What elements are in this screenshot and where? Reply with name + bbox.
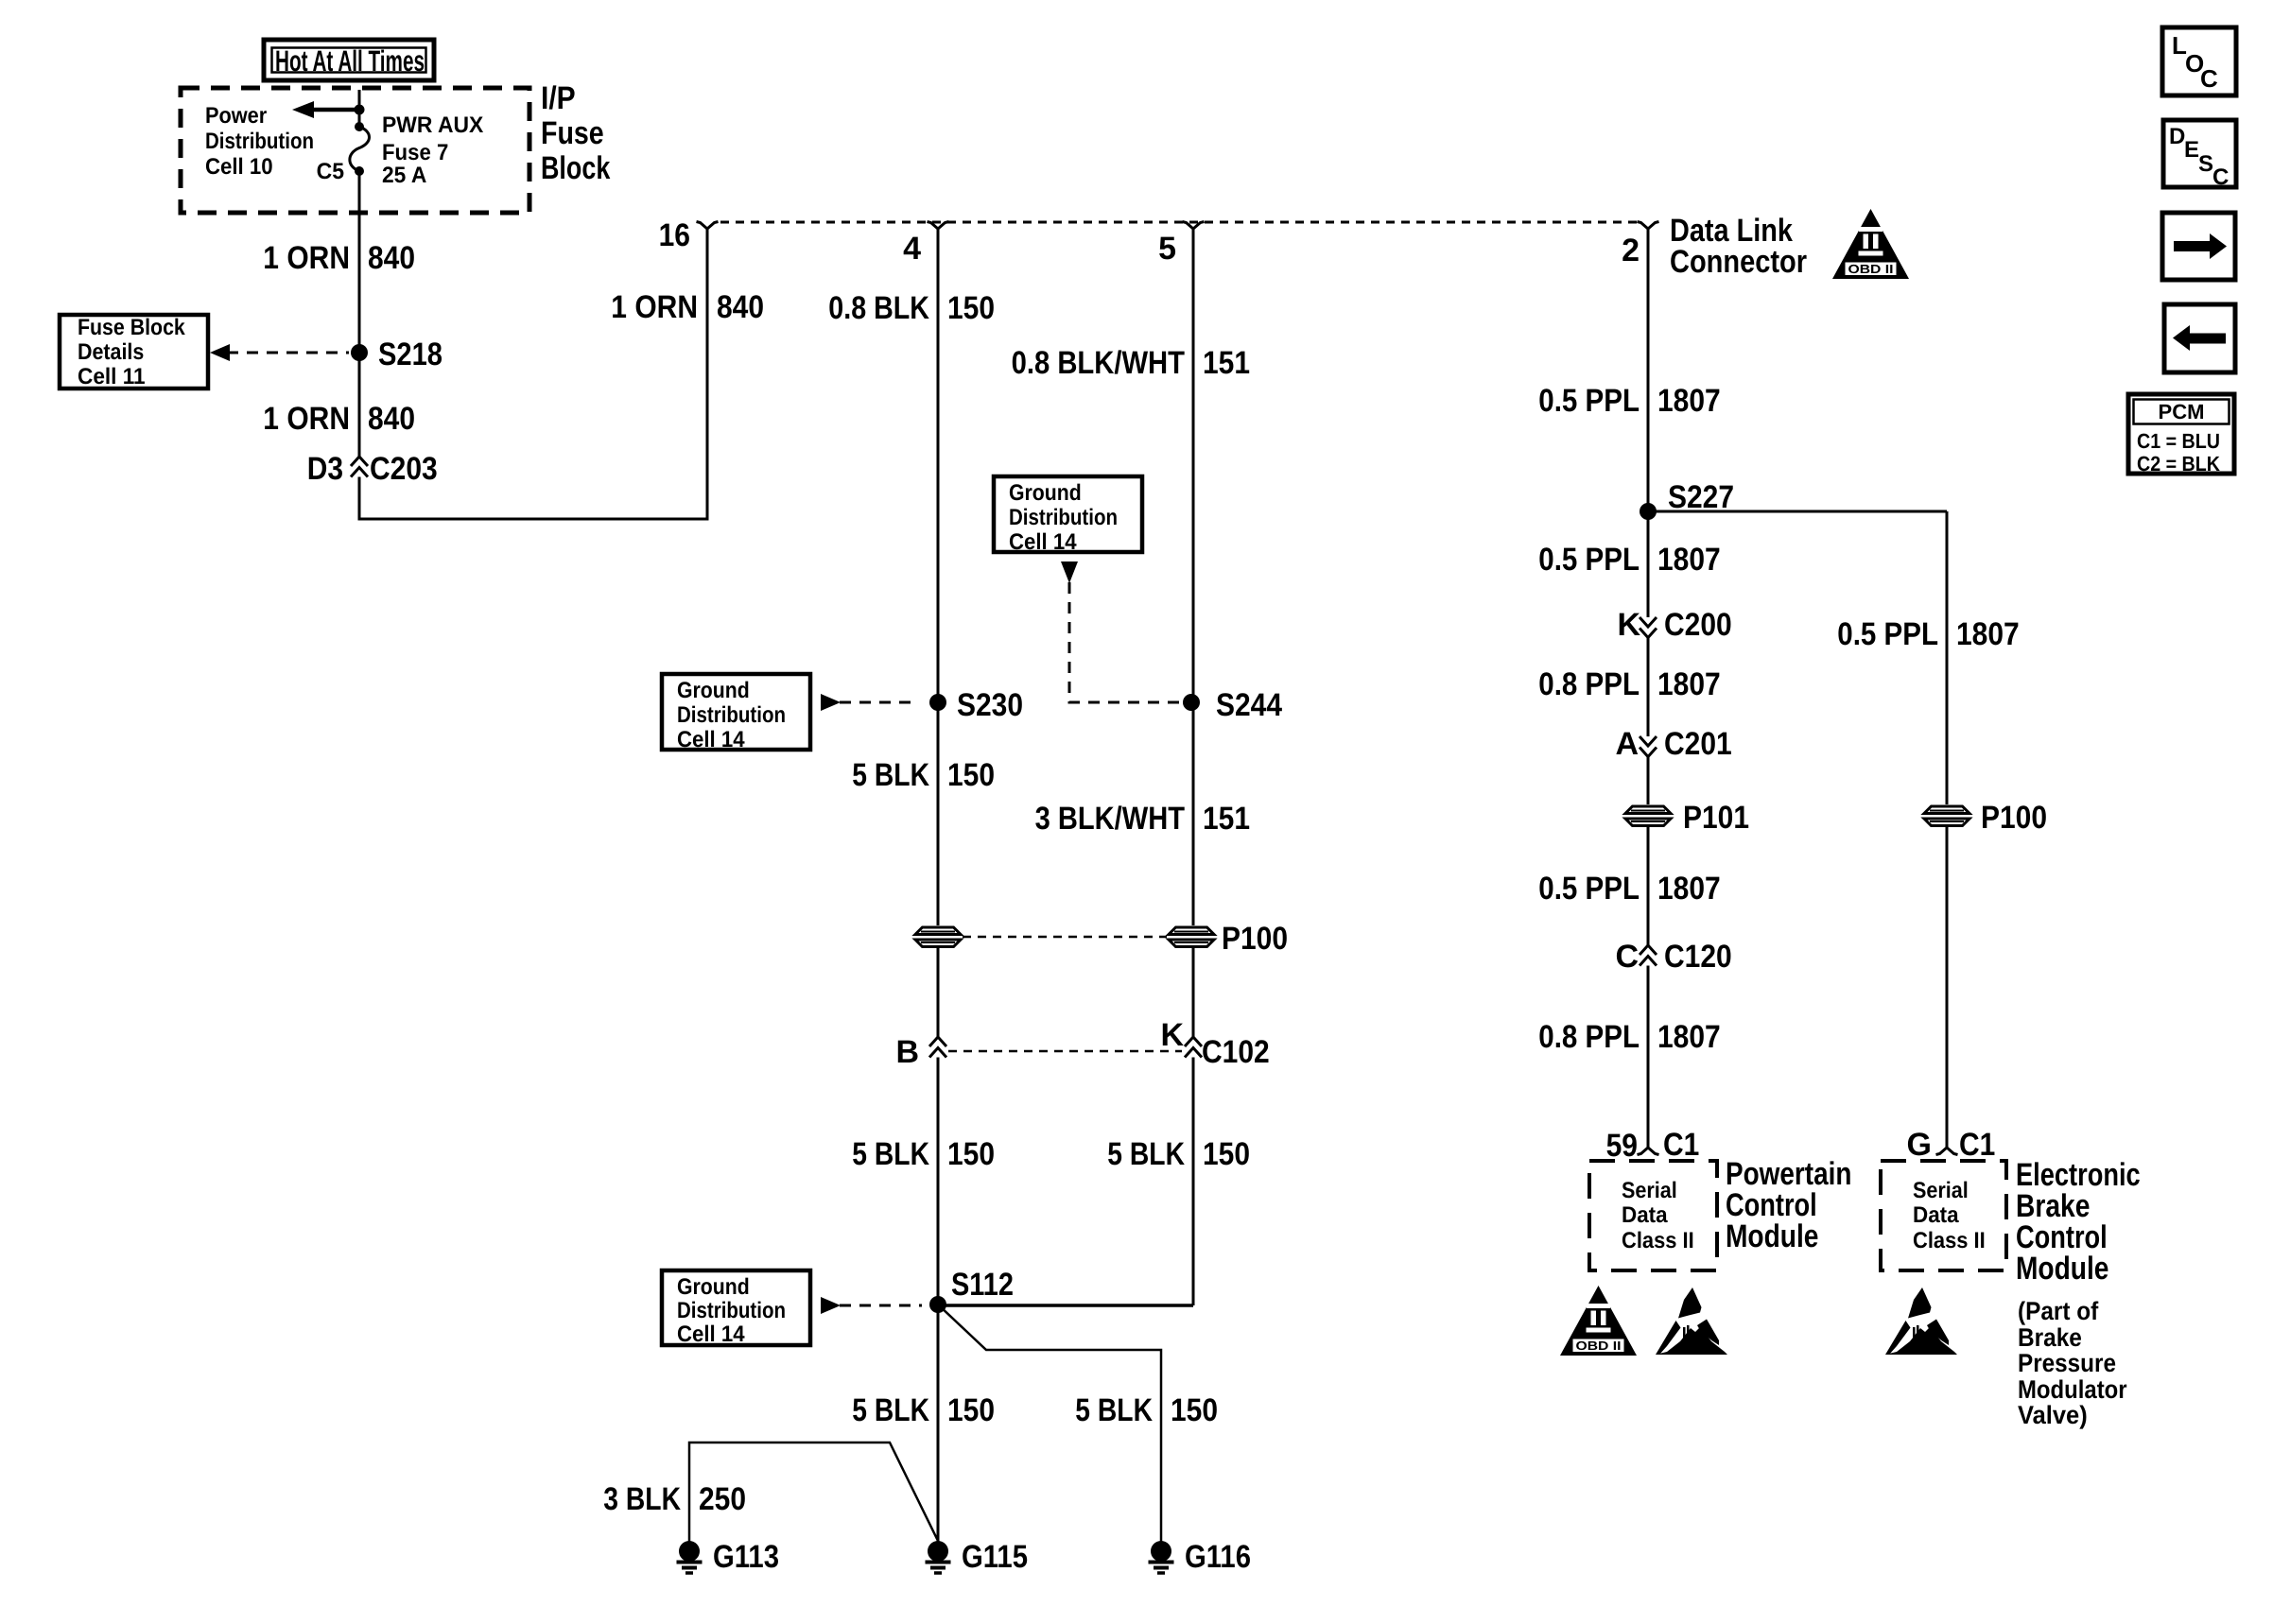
- svg-text:0.5 PPL: 0.5 PPL: [1538, 871, 1640, 907]
- svg-text:2: 2: [1622, 233, 1640, 268]
- svg-text:PWR AUX: PWR AUX: [382, 112, 483, 138]
- svg-text:0.8 BLK/WHT: 0.8 BLK/WHT: [1012, 345, 1186, 381]
- svg-text:Pressure: Pressure: [2018, 1349, 2116, 1377]
- svg-text:I/P: I/P: [541, 80, 576, 116]
- svg-text:C200: C200: [1664, 607, 1732, 643]
- svg-text:Class II: Class II: [1622, 1228, 1694, 1253]
- svg-text:1 ORN: 1 ORN: [611, 289, 698, 325]
- svg-text:Details: Details: [78, 339, 144, 365]
- svg-text:Ground: Ground: [677, 1274, 750, 1300]
- svg-text:Fuse Block: Fuse Block: [78, 315, 185, 340]
- svg-text:S230: S230: [957, 687, 1023, 723]
- svg-text:Distribution: Distribution: [1009, 505, 1118, 530]
- svg-text:Cell 14: Cell 14: [677, 1322, 745, 1347]
- svg-text:OBD II: OBD II: [1848, 262, 1894, 276]
- svg-text:Cell 10: Cell 10: [205, 154, 273, 180]
- svg-text:Cell 14: Cell 14: [677, 727, 745, 752]
- svg-text:1807: 1807: [1657, 871, 1721, 907]
- svg-text:A: A: [1615, 726, 1639, 762]
- svg-text:0.5 PPL: 0.5 PPL: [1538, 542, 1640, 578]
- svg-text:Class II: Class II: [1913, 1228, 1986, 1253]
- svg-text:C: C: [2200, 64, 2218, 93]
- svg-text:C120: C120: [1664, 939, 1732, 975]
- svg-text:C201: C201: [1664, 726, 1732, 762]
- svg-text:5 BLK: 5 BLK: [852, 1136, 929, 1172]
- svg-text:Power: Power: [205, 103, 267, 129]
- svg-text:G: G: [1907, 1127, 1932, 1163]
- svg-text:S218: S218: [378, 337, 442, 372]
- svg-text:G116: G116: [1185, 1539, 1251, 1575]
- svg-text:E: E: [2184, 137, 2199, 163]
- svg-text:4: 4: [903, 231, 921, 267]
- svg-text:3 BLK: 3 BLK: [603, 1481, 681, 1517]
- svg-text:Module: Module: [2016, 1251, 2108, 1287]
- svg-text:Module: Module: [1726, 1218, 1818, 1254]
- svg-text:C1 = BLU: C1 = BLU: [2137, 429, 2220, 453]
- svg-text:C: C: [1615, 939, 1639, 975]
- svg-text:Distribution: Distribution: [205, 129, 314, 154]
- svg-text:1807: 1807: [1657, 542, 1721, 578]
- svg-text:59: 59: [1606, 1128, 1638, 1164]
- svg-text:5 BLK: 5 BLK: [852, 1392, 929, 1428]
- svg-text:Hot At All Times: Hot At All Times: [275, 44, 425, 78]
- svg-text:1807: 1807: [1657, 666, 1721, 702]
- svg-text:K: K: [1160, 1017, 1184, 1053]
- svg-text:150: 150: [947, 757, 995, 793]
- svg-text:Cell 11: Cell 11: [78, 364, 146, 389]
- svg-text:D3: D3: [307, 451, 343, 487]
- svg-text:PCM: PCM: [2159, 400, 2205, 423]
- svg-text:(Part of: (Part of: [2018, 1297, 2099, 1325]
- svg-text:K: K: [1617, 607, 1640, 643]
- svg-text:Brake: Brake: [2018, 1323, 2082, 1352]
- svg-text:840: 840: [368, 401, 415, 437]
- svg-text:5: 5: [1158, 231, 1176, 267]
- svg-text:1807: 1807: [1657, 383, 1721, 419]
- svg-text:Valve): Valve): [2018, 1401, 2088, 1429]
- svg-text:C1: C1: [1663, 1127, 1699, 1163]
- svg-text:Connector: Connector: [1670, 244, 1807, 280]
- svg-text:C: C: [2212, 164, 2229, 190]
- svg-text:0.5 PPL: 0.5 PPL: [1837, 616, 1938, 652]
- svg-text:C2 = BLK: C2 = BLK: [2137, 452, 2220, 475]
- svg-text:C203: C203: [370, 451, 438, 487]
- svg-text:OBD II: OBD II: [1576, 1339, 1622, 1353]
- svg-text:C1: C1: [1959, 1127, 1995, 1163]
- svg-text:Ground: Ground: [1009, 480, 1082, 506]
- svg-text:0.8 BLK: 0.8 BLK: [828, 290, 929, 326]
- svg-text:151: 151: [1203, 345, 1250, 381]
- svg-text:5 BLK: 5 BLK: [1107, 1136, 1185, 1172]
- svg-text:0.5 PPL: 0.5 PPL: [1538, 383, 1640, 419]
- svg-text:G115: G115: [962, 1539, 1028, 1575]
- svg-text:1807: 1807: [1657, 1019, 1721, 1055]
- svg-text:Distribution: Distribution: [677, 1298, 786, 1323]
- svg-text:Data: Data: [1913, 1202, 1959, 1228]
- svg-text:150: 150: [947, 290, 995, 326]
- svg-text:25 A: 25 A: [382, 163, 426, 188]
- svg-text:Distribution: Distribution: [677, 702, 786, 728]
- svg-text:P100: P100: [1222, 921, 1288, 957]
- svg-text:840: 840: [368, 240, 415, 276]
- svg-text:150: 150: [1203, 1136, 1250, 1172]
- svg-text:1 ORN: 1 ORN: [263, 240, 350, 276]
- svg-text:150: 150: [947, 1136, 995, 1172]
- svg-text:C5: C5: [317, 159, 344, 184]
- svg-text:5 BLK: 5 BLK: [852, 757, 929, 793]
- svg-text:151: 151: [1203, 801, 1250, 837]
- svg-text:P101: P101: [1683, 800, 1749, 836]
- svg-text:S112: S112: [951, 1267, 1014, 1303]
- svg-text:Serial: Serial: [1622, 1178, 1677, 1203]
- svg-text:Fuse 7: Fuse 7: [382, 140, 448, 165]
- svg-text:0.8 PPL: 0.8 PPL: [1538, 666, 1640, 702]
- svg-text:0.8 PPL: 0.8 PPL: [1538, 1019, 1640, 1055]
- svg-text:Fuse: Fuse: [541, 115, 604, 151]
- svg-text:S244: S244: [1216, 687, 1282, 723]
- svg-text:Data: Data: [1622, 1202, 1668, 1228]
- svg-text:16: 16: [659, 217, 690, 253]
- svg-text:Serial: Serial: [1913, 1178, 1969, 1203]
- svg-text:D: D: [2169, 124, 2185, 149]
- svg-text:250: 250: [699, 1481, 746, 1517]
- svg-text:150: 150: [947, 1392, 995, 1428]
- svg-text:S: S: [2198, 151, 2213, 177]
- svg-text:150: 150: [1171, 1392, 1218, 1428]
- svg-text:Ground: Ground: [677, 678, 750, 703]
- svg-text:3 BLK/WHT: 3 BLK/WHT: [1035, 801, 1186, 837]
- svg-text:1807: 1807: [1956, 616, 2020, 652]
- svg-text:5 BLK: 5 BLK: [1075, 1392, 1153, 1428]
- svg-text:1 ORN: 1 ORN: [263, 401, 350, 437]
- svg-text:Modulator: Modulator: [2018, 1375, 2127, 1404]
- svg-text:P100: P100: [1981, 800, 2047, 836]
- svg-text:B: B: [895, 1034, 919, 1070]
- svg-text:C102: C102: [1202, 1034, 1270, 1070]
- svg-text:G113: G113: [713, 1539, 779, 1575]
- svg-text:840: 840: [717, 289, 764, 325]
- svg-text:Cell 14: Cell 14: [1009, 529, 1077, 555]
- svg-text:S227: S227: [1668, 479, 1734, 515]
- svg-text:Block: Block: [541, 150, 610, 186]
